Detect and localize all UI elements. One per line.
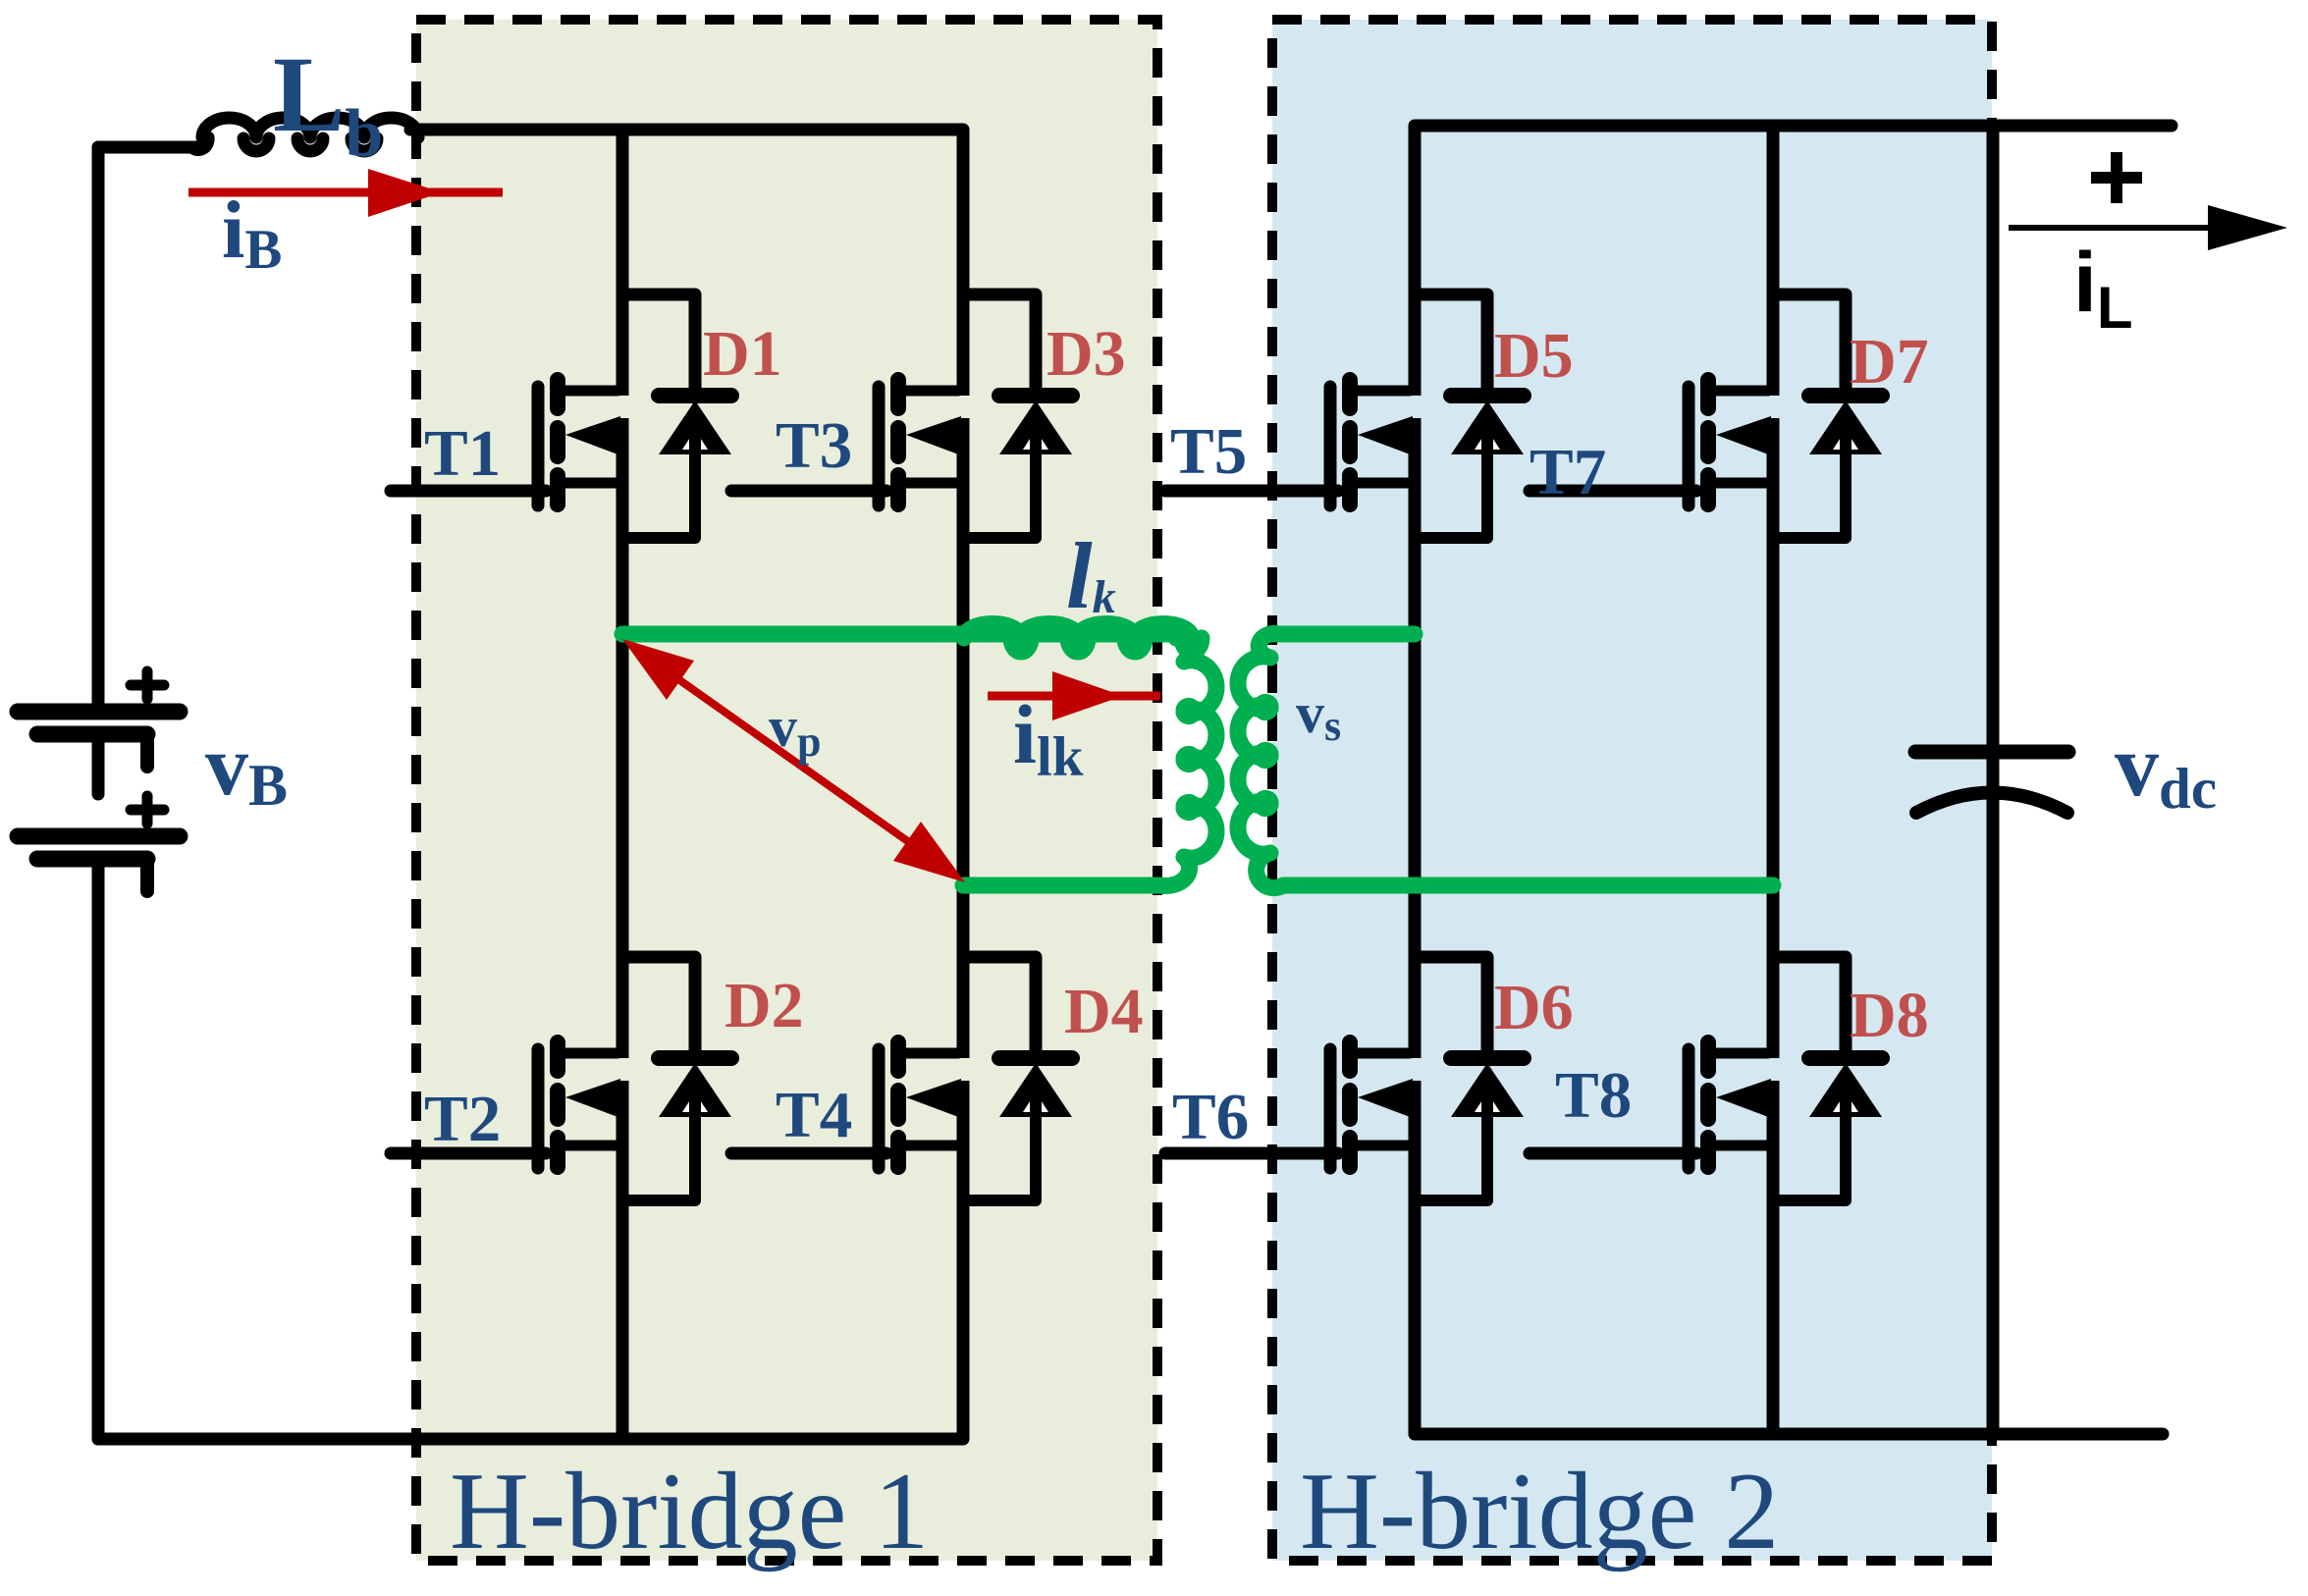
- diode D8: [1773, 957, 1882, 1200]
- battery cell 1 (vB top cell, + up): [18, 671, 180, 794]
- label T8: [1555, 1059, 1632, 1132]
- svg-text:T4: T4: [776, 1079, 852, 1151]
- svg-text:D8: D8: [1850, 980, 1929, 1051]
- current arrow ilk: [988, 671, 1160, 720]
- label D6: [1494, 972, 1574, 1043]
- diode D2: [622, 957, 731, 1200]
- transistor T3: [731, 380, 961, 505]
- svg-text:T5: T5: [1170, 415, 1247, 488]
- label iL: [2073, 236, 2133, 341]
- diode D6: [1415, 957, 1524, 1200]
- svg-text:D3: D3: [1047, 318, 1126, 390]
- transistor T7: [1530, 380, 1771, 505]
- transistor T5: [1165, 380, 1413, 505]
- diode D5: [1415, 294, 1524, 538]
- battery cell 2 (vB bottom cell): [18, 796, 180, 919]
- label H-bridge 2: [1300, 1451, 1779, 1572]
- label T7: [1530, 436, 1606, 508]
- H-bridge 1 dashed border: [416, 20, 1157, 1561]
- wire leg T7/T8 (H-bridge 2 right): [1767, 126, 1780, 1434]
- wire right rail: [1987, 126, 2000, 1434]
- label D8: [1850, 980, 1929, 1051]
- svg-text:D4: D4: [1064, 976, 1144, 1047]
- diode D3: [963, 294, 1072, 538]
- label vs: [1296, 681, 1341, 750]
- svg-text:D2: D2: [725, 970, 804, 1041]
- wire top-left from battery to inductor: [98, 147, 204, 703]
- current arrow iL: [2009, 205, 2287, 250]
- svg-text:D5: D5: [1494, 320, 1574, 392]
- svg-text:T2: T2: [424, 1083, 501, 1155]
- transistor T1: [391, 380, 620, 505]
- label + (output positive): [2091, 152, 2142, 203]
- voltage arrow vp (double headed): [622, 639, 965, 882]
- wire leg T1/T2 (H-bridge 1 left): [617, 130, 629, 1439]
- label vp: [769, 695, 821, 766]
- wire left rail below battery: [92, 908, 105, 1439]
- capacitor Cdc curved plate: [1916, 793, 2067, 814]
- svg-text:T8: T8: [1555, 1059, 1632, 1132]
- svg-text:H-bridge 1: H-bridge 1: [450, 1451, 929, 1572]
- label H-bridge 1: [450, 1451, 929, 1572]
- label T6: [1172, 1081, 1249, 1153]
- svg-text:D1: D1: [703, 318, 782, 390]
- wire leg T5/T6 (H-bridge 2 left): [1409, 126, 1422, 1434]
- current arrow iB: [188, 169, 503, 217]
- label T5: [1170, 415, 1247, 488]
- diode D4: [963, 957, 1072, 1200]
- H-bridge 1 region fill: [416, 20, 1157, 1561]
- H-bridge 1 top bus: [410, 124, 963, 136]
- transistor T8: [1530, 1042, 1771, 1168]
- label T3: [776, 409, 852, 482]
- label Lb: [273, 34, 383, 172]
- H-bridge 2 dashed border: [1272, 20, 1992, 1561]
- label D4: [1064, 976, 1144, 1047]
- inductor Lb: [98, 118, 418, 151]
- capacitor Cdc top plate: [1915, 745, 2068, 760]
- svg-text:T3: T3: [776, 409, 852, 482]
- label D1: [703, 318, 782, 390]
- diode D7: [1773, 294, 1882, 538]
- label lk: [1066, 523, 1116, 628]
- label Vdc: [2115, 718, 2217, 821]
- transformer primary winding with leakage inductance lk: [622, 624, 1216, 886]
- wire bottom return bus (battery minus to H-bridge 1): [98, 1433, 963, 1446]
- label ilk: [1013, 687, 1084, 788]
- svg-text:T1: T1: [424, 417, 501, 490]
- H-bridge 2 bottom bus: [1415, 1428, 2163, 1441]
- transformer secondary winding: [1238, 634, 1773, 888]
- svg-text:D7: D7: [1850, 326, 1929, 398]
- H-bridge 2 region fill: [1272, 20, 1992, 1561]
- label D5: [1494, 320, 1574, 392]
- svg-text:T7: T7: [1530, 436, 1606, 508]
- H-bridge 2 top bus: [1415, 120, 2172, 133]
- label D2: [725, 970, 804, 1041]
- svg-text:D6: D6: [1494, 972, 1574, 1043]
- label T4: [776, 1079, 852, 1151]
- transistor T6: [1165, 1042, 1413, 1168]
- label T2: [424, 1083, 501, 1155]
- label vB: [205, 718, 288, 818]
- label D7: [1850, 326, 1929, 398]
- transistor T4: [731, 1042, 961, 1168]
- label D3: [1047, 318, 1126, 390]
- transistor T2: [391, 1042, 620, 1168]
- wire leg T3/T4 (H-bridge 1 right): [957, 130, 970, 1439]
- diode D1: [622, 294, 731, 538]
- svg-text:H-bridge 2: H-bridge 2: [1300, 1451, 1779, 1572]
- label iB: [222, 185, 282, 281]
- svg-text:T6: T6: [1172, 1081, 1249, 1153]
- label T1: [424, 417, 501, 490]
